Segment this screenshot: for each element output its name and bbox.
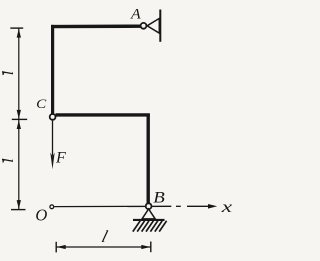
dimension left arrow down at bottom [17, 200, 21, 209]
svg-text:B: B [153, 189, 165, 206]
wire middle horizontal member C to corner [56, 113, 150, 116]
support B triangle [142, 209, 155, 219]
support B ground line [133, 219, 165, 221]
node A label [130, 7, 142, 22]
dimension left arrow down into middle tick [17, 110, 21, 119]
dimension bottom arrow left [57, 245, 66, 249]
wire right vertical member [146, 114, 149, 204]
support A triangle [147, 18, 159, 33]
wire x axis arrowhead [208, 204, 217, 209]
node O origin circle [50, 205, 54, 209]
node B hinge circle [146, 203, 152, 209]
node A hinge circle [141, 23, 147, 29]
dimension bottom horizontal line [56, 246, 151, 248]
dimension bottom label l [100, 227, 110, 246]
support A wall line [159, 10, 161, 42]
wire top horizontal member [51, 25, 141, 29]
node B label [153, 189, 165, 206]
node C hinge circle [50, 114, 56, 120]
dimension bottom right tick [150, 242, 152, 253]
dimension left middle tick [12, 118, 27, 120]
node C label [36, 98, 47, 112]
dimension left arrow up at top [17, 29, 21, 38]
svg-text:O: O [35, 205, 47, 224]
dimension left vertical line [18, 28, 20, 209]
dimension left arrow up from middle tick [17, 120, 21, 129]
wire x axis solid segment [54, 205, 171, 207]
svg-text:F: F [55, 150, 66, 167]
dimension bottom left tick [55, 242, 57, 253]
dimension left bottom tick [11, 209, 26, 211]
dimension bottom arrow right [141, 245, 150, 249]
svg-text:A: A [130, 7, 142, 22]
wire left vertical member [51, 25, 54, 114]
support B ground hatching [133, 221, 167, 232]
svg-text:x: x [221, 199, 233, 217]
dimension left top tick [10, 27, 23, 29]
force F arrowhead [50, 153, 54, 170]
svg-text:C: C [36, 98, 47, 112]
wire x axis dash [176, 205, 181, 207]
wire x axis arrow segment [187, 205, 210, 207]
force F line [52, 121, 54, 156]
node x label [221, 199, 233, 217]
